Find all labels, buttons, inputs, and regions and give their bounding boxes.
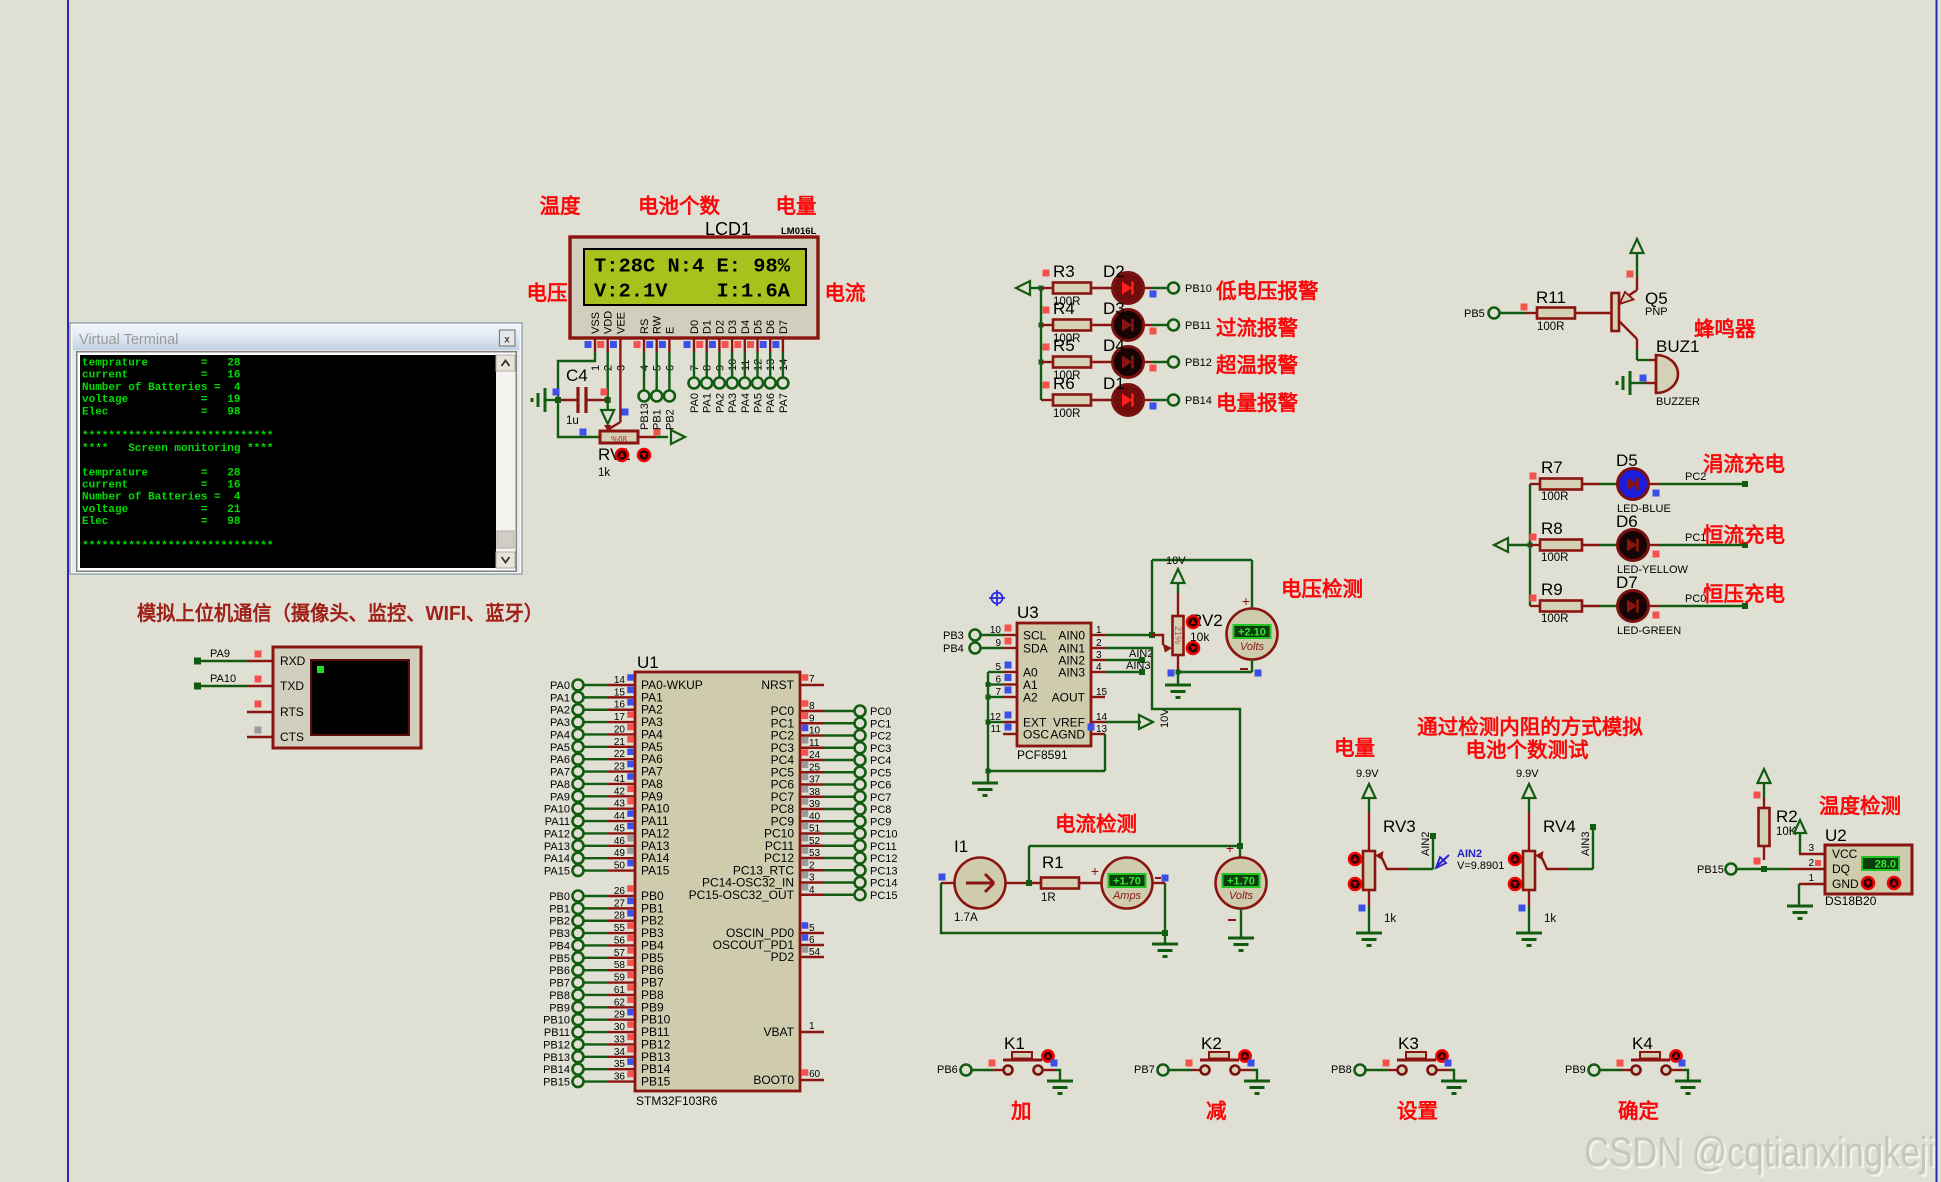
terminal PB3	[943, 630, 1003, 643]
svg-text:PA10: PA10	[544, 804, 570, 816]
net label AIN2 at U3	[1105, 648, 1153, 663]
Virtual Terminal scrollbar	[496, 355, 515, 568]
svg-text:U2: U2	[1825, 826, 1847, 845]
current source I1	[939, 837, 1006, 924]
svg-text:R7: R7	[1541, 458, 1563, 477]
svg-text:PB4: PB4	[943, 643, 964, 655]
svg-text:5: 5	[809, 923, 815, 934]
svg-text:59: 59	[614, 973, 626, 984]
svg-text:PB11: PB11	[1185, 320, 1211, 332]
wire U3 AGND down to rail	[1104, 734, 1106, 771]
power arrow above R2	[1758, 769, 1771, 798]
push button K2	[1169, 1034, 1255, 1075]
svg-text:40: 40	[809, 811, 821, 822]
ground at K2	[1244, 1080, 1270, 1083]
svg-text:AIN3: AIN3	[1580, 832, 1592, 856]
svg-text:VCC: VCC	[1832, 847, 1858, 861]
svg-text:PB10: PB10	[1185, 283, 1212, 295]
U1 right pin VBAT	[764, 1021, 824, 1039]
svg-text:VSS: VSS	[590, 312, 602, 334]
svg-text:PA9: PA9	[210, 648, 230, 660]
wires LCD pins 4-6 to pads	[639, 352, 675, 402]
svg-text:+1.70: +1.70	[1113, 876, 1141, 888]
svg-text:通过检测内阻的方式模拟: 通过检测内阻的方式模拟	[1417, 715, 1643, 739]
U1 right pin NRST	[761, 674, 824, 692]
svg-text:过流报警: 过流报警	[1216, 316, 1298, 340]
U1 right pins OSC PD	[713, 922, 824, 964]
svg-text:加: 加	[1010, 1100, 1032, 1123]
svg-text:Number of Batteries = 4: Number of Batteries = 4	[82, 382, 241, 394]
svg-text:STM32F103R6: STM32F103R6	[636, 1094, 718, 1108]
svg-text:C4: C4	[566, 366, 588, 385]
svg-text:V:2.1V I:1.6A: V:2.1V I:1.6A	[594, 281, 791, 303]
svg-text:BOOT0: BOOT0	[753, 1073, 794, 1087]
push button K1	[972, 1034, 1058, 1075]
svg-text:PA6: PA6	[765, 393, 777, 413]
svg-text:PB0: PB0	[549, 891, 570, 903]
U2 display 28.0	[1862, 857, 1899, 871]
svg-text:OSC: OSC	[1023, 728, 1049, 742]
svg-text:2: 2	[1808, 858, 1814, 869]
stray pin squares near RV1/C4	[553, 389, 661, 436]
voltmeter (+1.70 Volts)	[1216, 858, 1267, 921]
svg-text:U1: U1	[637, 653, 659, 672]
svg-text:NRST: NRST	[761, 678, 794, 692]
svg-text:45: 45	[614, 823, 626, 834]
svg-text:超温报警: 超温报警	[1215, 353, 1298, 377]
svg-text:3: 3	[1096, 650, 1102, 661]
wire rail R7-R9	[1528, 484, 1533, 606]
svg-text:VDD: VDD	[603, 311, 615, 334]
svg-text:60: 60	[809, 1069, 821, 1080]
svg-text:46: 46	[614, 836, 626, 847]
RV3 adjust buttons	[1349, 853, 1361, 890]
svg-text:current = 16: current = 16	[82, 370, 240, 382]
virtual terminal instrument body	[273, 647, 421, 748]
svg-text:4: 4	[1096, 662, 1102, 673]
svg-text:电压: 电压	[527, 282, 568, 305]
push button K3	[1366, 1034, 1452, 1075]
svg-text:涓流充电: 涓流充电	[1703, 452, 1785, 476]
svg-text:RV4: RV4	[1543, 817, 1576, 836]
svg-text:电量: 电量	[1334, 737, 1375, 760]
ground below RV3	[1356, 890, 1382, 946]
svg-text:电流: 电流	[825, 281, 866, 305]
svg-text:PC15: PC15	[870, 890, 898, 902]
svg-text:K2: K2	[1201, 1034, 1222, 1053]
svg-text:A2: A2	[1023, 691, 1038, 705]
IC U2 DS18B20 body	[1825, 826, 1912, 908]
svg-text:D4: D4	[740, 320, 752, 334]
svg-text:1k: 1k	[598, 467, 610, 479]
svg-text:PC7: PC7	[870, 792, 891, 804]
svg-text:电量报警: 电量报警	[1216, 391, 1298, 415]
LCD screen	[584, 249, 806, 305]
Virtual Terminal title bar	[73, 325, 519, 350]
svg-text:24: 24	[809, 750, 821, 761]
svg-text:Elec = 98: Elec = 98	[82, 406, 241, 418]
power-down arrow at VDD node	[601, 400, 614, 424]
RV3 wiper to AIN2	[1375, 832, 1436, 869]
svg-text:100R: 100R	[1541, 491, 1569, 503]
svg-text:x: x	[504, 335, 510, 346]
ground at K1	[1047, 1080, 1073, 1083]
ground at K4	[1675, 1080, 1701, 1083]
svg-text:确定: 确定	[1618, 1099, 1660, 1123]
potentiometer RV4	[1523, 817, 1576, 925]
svg-text:58: 58	[614, 960, 626, 971]
svg-text:PB5: PB5	[549, 953, 570, 965]
svg-text:Volts: Volts	[1240, 641, 1265, 653]
svg-text:voltage = 21: voltage = 21	[82, 504, 241, 516]
svg-text:PA15: PA15	[641, 864, 670, 878]
svg-text:R2: R2	[1776, 807, 1798, 826]
svg-text:减: 减	[1206, 1099, 1227, 1123]
resistor R2	[1754, 792, 1798, 865]
svg-text:CSDN @cqtianxingkeji: CSDN @cqtianxingkeji	[1584, 1128, 1935, 1175]
svg-text:PA12: PA12	[544, 828, 570, 840]
LED D4	[1091, 336, 1157, 378]
svg-text:62: 62	[614, 997, 626, 1008]
resistor R7	[1530, 458, 1583, 503]
svg-text:+2.10: +2.10	[1238, 627, 1266, 639]
svg-text:电流检测: 电流检测	[1055, 812, 1137, 836]
terminal PB4	[943, 643, 1003, 656]
svg-text:PC14: PC14	[870, 878, 898, 890]
blue crosshair marker	[989, 590, 1005, 606]
svg-text:voltage = 19: voltage = 19	[82, 394, 240, 406]
svg-text:LED-GREEN: LED-GREEN	[1617, 625, 1681, 637]
svg-text:DS18B20: DS18B20	[1825, 894, 1877, 908]
svg-text:TXD: TXD	[280, 679, 304, 693]
svg-text:I1: I1	[954, 837, 968, 856]
svg-text:10V: 10V	[1166, 555, 1186, 567]
svg-text:D5: D5	[753, 320, 765, 334]
svg-text:PA14: PA14	[544, 853, 570, 865]
svg-text:56: 56	[614, 935, 626, 946]
svg-text:PC3: PC3	[870, 743, 891, 755]
svg-text:*****************************: *****************************	[82, 431, 273, 443]
svg-text:52: 52	[809, 836, 821, 847]
svg-text:1: 1	[590, 365, 602, 371]
svg-text:电压检测: 电压检测	[1281, 577, 1363, 601]
U3 left pins	[990, 625, 1049, 742]
wire K1 to ground	[1042, 1070, 1060, 1080]
voltmeter PV (+2.10 Volts)	[1227, 593, 1278, 669]
wire PA10 to TXD	[194, 673, 247, 690]
svg-text:**** Screen monitoring ****: **** Screen monitoring ****	[82, 443, 273, 455]
wire I1 loop to ground	[941, 883, 1168, 936]
LED D2	[1091, 262, 1157, 304]
wires LCD pins 7-14 to pads	[689, 352, 789, 389]
svg-text:6: 6	[809, 935, 815, 946]
svg-text:43: 43	[614, 799, 626, 810]
LCD pin stubs and numbers	[585, 338, 790, 371]
LED D7	[1582, 573, 1681, 637]
wire LED D4 to terminal	[1144, 361, 1169, 363]
svg-text:PB10: PB10	[543, 1015, 570, 1027]
svg-text:+: +	[1091, 863, 1099, 879]
svg-text:CTS: CTS	[280, 730, 304, 744]
svg-text:11: 11	[991, 724, 1002, 735]
svg-text:9: 9	[809, 713, 815, 724]
svg-text:AIN3: AIN3	[1126, 660, 1150, 672]
svg-text:蜂鸣器: 蜂鸣器	[1694, 317, 1756, 341]
terminal PB7	[1134, 1064, 1169, 1076]
svg-text:R6: R6	[1053, 374, 1075, 393]
svg-text:恒压充电: 恒压充电	[1703, 582, 1785, 606]
svg-text:21%: 21%	[1173, 626, 1183, 644]
wire LED D1 to terminal	[1144, 399, 1169, 401]
svg-text:PCF8591: PCF8591	[1017, 748, 1068, 762]
wire R1 node up to volt meter	[1029, 840, 1243, 883]
power arrow 10V above RV2	[1172, 569, 1185, 593]
svg-text:AIN0: AIN0	[1058, 629, 1085, 643]
LCD pin names (rotated)	[590, 311, 790, 334]
svg-text:PC5: PC5	[870, 767, 891, 779]
svg-text:53: 53	[809, 848, 821, 859]
svg-text:模拟上位机通信（摄像头、监控、WIFI、蓝牙）: 模拟上位机通信（摄像头、监控、WIFI、蓝牙）	[137, 601, 543, 625]
svg-text:3: 3	[809, 873, 815, 884]
sheet border right blue line	[1936, 0, 1938, 1182]
svg-text:D1: D1	[702, 320, 714, 334]
svg-text:PB4: PB4	[549, 940, 570, 952]
svg-text:PB1: PB1	[549, 903, 570, 915]
svg-text:AIN2: AIN2	[1129, 648, 1153, 660]
svg-text:PB14: PB14	[543, 1064, 570, 1076]
svg-text:PB1: PB1	[652, 409, 664, 430]
svg-text:D3: D3	[1103, 299, 1125, 318]
svg-text:39: 39	[809, 799, 821, 810]
svg-text:R5: R5	[1053, 336, 1075, 355]
svg-text:PB12: PB12	[1185, 357, 1212, 369]
svg-text:PB11: PB11	[544, 1027, 570, 1039]
wire R1 to ammeter	[1079, 863, 1101, 883]
terminal PB15	[1697, 864, 1737, 877]
ground at ammeter	[1152, 933, 1178, 957]
terminal PB8	[1331, 1064, 1366, 1076]
svg-text:9.9V: 9.9V	[1356, 768, 1379, 780]
svg-text:temprature = 28: temprature = 28	[82, 358, 241, 370]
svg-text:28.0: 28.0	[1875, 859, 1896, 871]
svg-text:49: 49	[614, 848, 626, 859]
svg-text:PC6: PC6	[870, 780, 891, 792]
svg-text:PB12: PB12	[543, 1039, 570, 1051]
wire LCD pin3 VEE down to RV1 wiper	[609, 352, 620, 429]
RV4 wiper to AIN3	[1535, 824, 1596, 869]
svg-text:PB6: PB6	[937, 1064, 958, 1076]
node at C4 left	[555, 397, 561, 403]
svg-text:Number of Batteries = 4: Number of Batteries = 4	[82, 492, 241, 504]
ground below RV2	[1165, 672, 1191, 698]
LED D3	[1091, 299, 1157, 341]
svg-text:Elec = 98: Elec = 98	[82, 516, 241, 528]
potentiometer RV2	[1173, 593, 1223, 672]
svg-text:PA6: PA6	[550, 754, 570, 766]
svg-text:PA7: PA7	[550, 767, 570, 779]
svg-text:PC9: PC9	[870, 816, 891, 828]
svg-text:1u: 1u	[566, 415, 579, 427]
svg-text:BUZZER: BUZZER	[1656, 396, 1700, 408]
svg-text:PB15: PB15	[641, 1075, 671, 1089]
virtual terminal instrument pins	[247, 651, 306, 745]
svg-text:1: 1	[1808, 873, 1814, 884]
svg-text:D1: D1	[1103, 374, 1125, 393]
RV1 adjust buttons	[616, 449, 650, 461]
svg-text:PB15: PB15	[543, 1077, 570, 1089]
wire PB15 to U2 DQ	[1737, 866, 1799, 872]
wire LED D3 to terminal	[1144, 324, 1169, 326]
svg-text:温度检测: 温度检测	[1819, 794, 1901, 818]
Virtual Terminal green text	[82, 358, 273, 553]
svg-text:PB2: PB2	[549, 916, 570, 928]
Virtual Terminal close button	[500, 330, 516, 346]
svg-text:VEE: VEE	[615, 312, 627, 334]
svg-text:*****************************: *****************************	[82, 541, 273, 553]
svg-text:61: 61	[614, 985, 626, 996]
ground at U2 GND	[1787, 884, 1813, 919]
svg-text:1k: 1k	[1384, 913, 1396, 925]
terminal PB9	[1565, 1064, 1600, 1076]
svg-text:D7: D7	[1616, 573, 1638, 592]
svg-text:44: 44	[614, 811, 626, 822]
svg-text:+1.70: +1.70	[1227, 876, 1255, 888]
svg-text:K3: K3	[1398, 1034, 1419, 1053]
svg-text:DQ: DQ	[1832, 862, 1850, 876]
svg-text:1R: 1R	[1041, 892, 1056, 904]
svg-text:PNP: PNP	[1645, 306, 1668, 318]
node at VDD/C4 right	[605, 397, 611, 403]
svg-text:15: 15	[1096, 687, 1108, 698]
svg-text:PA5: PA5	[550, 742, 570, 754]
svg-text:PA2: PA2	[714, 393, 726, 413]
svg-text:57: 57	[614, 948, 626, 959]
svg-text:RS: RS	[639, 319, 651, 334]
wire LED D2 to terminal	[1144, 287, 1169, 289]
svg-text:R1: R1	[1042, 853, 1064, 872]
transistor Q5 PNP	[1612, 277, 1668, 339]
svg-text:PC15-OSC32_OUT: PC15-OSC32_OUT	[689, 888, 795, 902]
svg-text:54: 54	[809, 947, 821, 958]
ground (sideways) at buzzer	[1617, 371, 1656, 395]
ground (sideways) at C4	[544, 388, 547, 412]
U1 left pins PA0-PA15 with terminals	[544, 674, 703, 877]
svg-text:R11: R11	[1536, 288, 1566, 307]
svg-text:PB15: PB15	[1697, 864, 1724, 876]
svg-text:11: 11	[809, 738, 820, 749]
ground below U3	[972, 771, 998, 796]
svg-text:10V: 10V	[1159, 708, 1171, 728]
svg-text:1: 1	[809, 1021, 815, 1032]
svg-text:R4: R4	[1053, 299, 1075, 318]
svg-text:PB9: PB9	[1565, 1064, 1586, 1076]
svg-text:PB2: PB2	[664, 409, 676, 430]
resistor R3	[1041, 262, 1091, 308]
svg-text:Amps: Amps	[1112, 890, 1142, 902]
terminal PB12	[1168, 357, 1212, 370]
svg-text:AIN2: AIN2	[1457, 848, 1482, 860]
svg-text:PB3: PB3	[943, 630, 964, 642]
power arrow above Q5	[1627, 239, 1644, 278]
net arrow left of R8 rail	[1494, 538, 1530, 552]
svg-text:SCL: SCL	[1023, 629, 1047, 643]
svg-text:PC1: PC1	[870, 718, 891, 730]
svg-text:100R: 100R	[1541, 613, 1569, 625]
svg-text:K1: K1	[1004, 1034, 1025, 1053]
LED D5	[1582, 451, 1671, 515]
ammeter (+1.70 Amps)	[1102, 858, 1169, 909]
svg-text:设置: 设置	[1397, 1100, 1438, 1123]
svg-text:42: 42	[614, 786, 626, 797]
svg-text:电池个数测试: 电池个数测试	[1466, 738, 1589, 762]
svg-text:R8: R8	[1541, 519, 1563, 538]
svg-text:AGND: AGND	[1050, 728, 1085, 742]
terminal PB5	[1464, 308, 1500, 321]
svg-text:PA10: PA10	[210, 673, 236, 685]
svg-text:PA3: PA3	[727, 393, 739, 413]
U1 left pins PB0-PB15 with terminals	[543, 885, 671, 1088]
svg-text:37: 37	[809, 775, 821, 786]
svg-text:2: 2	[1096, 638, 1102, 649]
svg-text:15: 15	[614, 687, 626, 698]
svg-text:23: 23	[614, 762, 626, 773]
U1 right pin BOOT0	[753, 1069, 824, 1087]
svg-text:PB13: PB13	[543, 1052, 570, 1064]
svg-text:RV3: RV3	[1383, 817, 1416, 836]
svg-text:D4: D4	[1103, 336, 1125, 355]
svg-text:电量: 电量	[776, 195, 817, 218]
U2 pins	[1799, 843, 1859, 891]
wire LCD pin2 VDD down to node	[607, 352, 609, 400]
net label AIN3 at U3	[1105, 660, 1150, 675]
Virtual Terminal popup window frame	[70, 323, 522, 574]
svg-text:AIN3: AIN3	[1058, 666, 1085, 680]
U1 right pins PC0-PC15 with terminals	[689, 700, 898, 902]
svg-text:4: 4	[809, 885, 815, 896]
wire AIN1 to current-sense meter	[1105, 648, 1240, 845]
svg-text:16: 16	[614, 700, 626, 711]
svg-text:D2: D2	[1103, 262, 1125, 281]
terminal PB11	[1168, 320, 1211, 333]
svg-text:PA9: PA9	[550, 791, 570, 803]
svg-text:9.9V: 9.9V	[1516, 768, 1539, 780]
svg-text:PC10: PC10	[870, 829, 898, 841]
svg-text:PA1: PA1	[702, 393, 714, 413]
wire K2 to ground	[1239, 1070, 1257, 1080]
probe label AIN2 voltage	[1436, 848, 1504, 872]
terminal PB6	[937, 1064, 972, 1076]
wire Q5 collector to buzzer	[1637, 339, 1656, 360]
svg-text:PB14: PB14	[1185, 395, 1212, 407]
svg-text:PC13: PC13	[870, 865, 898, 877]
labels PA0-PA7 (rotated)	[689, 393, 790, 413]
svg-text:D7: D7	[778, 320, 790, 334]
svg-text:35: 35	[614, 1059, 626, 1070]
wire LED D5 to PC2	[1649, 471, 1748, 487]
svg-text:PA0: PA0	[550, 680, 570, 692]
svg-text:100R: 100R	[1541, 552, 1569, 564]
svg-text:VBAT: VBAT	[764, 1025, 795, 1039]
svg-text:27: 27	[614, 898, 626, 909]
power 9.9V for RV4	[1516, 768, 1539, 851]
wire R11 to Q5 base	[1575, 312, 1611, 314]
svg-text:PB9: PB9	[549, 1002, 570, 1014]
svg-text:Volts: Volts	[1229, 890, 1254, 902]
RV2 adjust buttons	[1187, 616, 1199, 654]
wire U3 address pins to ground rail	[986, 672, 1106, 774]
svg-text:RXD: RXD	[280, 654, 306, 668]
resistor R11	[1500, 288, 1575, 333]
